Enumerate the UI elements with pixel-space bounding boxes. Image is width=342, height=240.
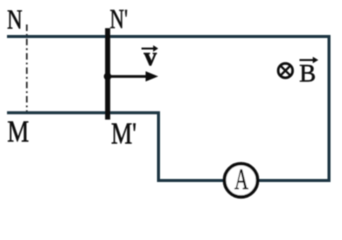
node (contact dot on rod) [104, 73, 112, 81]
velocity arrow v [109, 71, 158, 81]
axis dash-dot line (left reference line) [26, 25, 28, 113]
svg-text:M: M [7, 114, 29, 149]
ammeter A [224, 163, 257, 197]
svg-text:A: A [234, 163, 248, 196]
svg-text:B: B [299, 61, 316, 88]
svg-text:M': M' [111, 115, 137, 150]
magnetic field symbol (circle with X, into page) [278, 63, 292, 77]
svg-text:N: N [7, 4, 22, 35]
label v with vector arrow [142, 42, 159, 71]
svg-text:N': N' [110, 4, 128, 34]
wire loop: top rail N-N' to right side, down, bottom wire, up, bottom rail M-M' [7, 37, 329, 181]
conducting rod M'N' [105, 28, 110, 119]
label B with vector arrow [299, 57, 318, 88]
